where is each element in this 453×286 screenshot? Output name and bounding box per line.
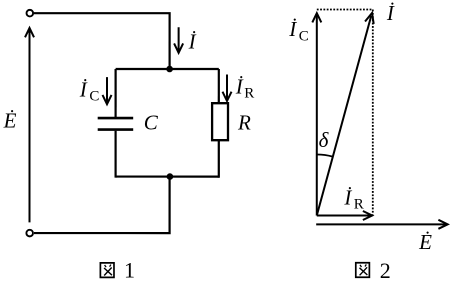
voltage arrow E (source indication) (25, 28, 34, 222)
wire left branch upper (115, 69, 117, 117)
current arrow IC (103, 77, 112, 104)
current arrow IR (223, 74, 232, 101)
svg-text:İ: İ (343, 185, 352, 209)
svg-text:2: 2 (380, 258, 391, 281)
svg-text:İ: İ (235, 75, 244, 99)
svg-text:C: C (299, 28, 309, 44)
svg-text:R: R (237, 110, 251, 134)
wire right branch upper (218, 69, 220, 103)
angle arc delta (317, 155, 333, 157)
capacitor C (98, 118, 134, 130)
dotted construction line horizontal (317, 9, 373, 11)
svg-text:1: 1 (124, 258, 135, 281)
terminal bottom-left (26, 230, 33, 237)
dotted construction line vertical (372, 10, 374, 215)
svg-text:İ: İ (188, 30, 197, 54)
resistor R (212, 103, 228, 140)
svg-text:R: R (244, 86, 254, 102)
svg-text:İ: İ (79, 77, 88, 101)
svg-text:Ė: Ė (3, 108, 17, 132)
current arrow I (174, 27, 183, 53)
phasor I arrow (resultant) (317, 13, 374, 216)
wire left branch lower (114, 131, 116, 178)
svg-text:R: R (354, 197, 364, 213)
svg-text:Ė: Ė (418, 230, 432, 254)
phasor IR arrow (horizontal) (317, 211, 372, 220)
caption: zu glyph (figure) 1 (100, 263, 114, 278)
wire bottom (junction to terminal) (34, 177, 170, 234)
wire box top (116, 68, 219, 70)
terminal top-left (27, 10, 34, 17)
svg-text:C: C (144, 110, 159, 134)
caption: zu glyph (figure) 2 (356, 263, 370, 278)
wire right branch lower (218, 140, 220, 178)
wire box bottom (116, 175, 219, 177)
axis E arrow (316, 220, 448, 229)
svg-text:İ: İ (386, 1, 395, 25)
svg-text:δ: δ (319, 128, 330, 152)
node top junction (166, 66, 173, 73)
svg-text:C: C (89, 88, 99, 104)
svg-text:İ: İ (288, 17, 297, 41)
node bottom junction (167, 173, 174, 180)
phasor IC arrow (vertical) (312, 13, 321, 215)
wire top (terminal to junction) (34, 13, 170, 69)
